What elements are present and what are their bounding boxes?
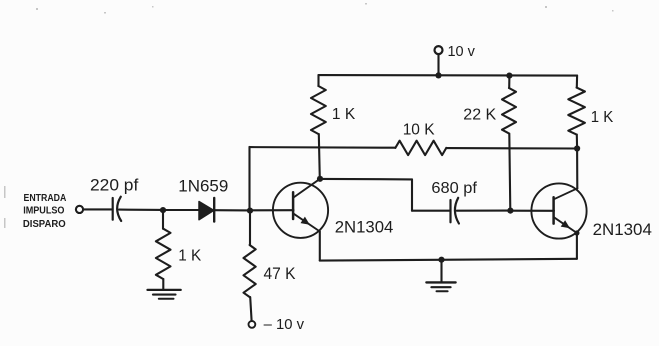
node 22K rail junction xyxy=(506,73,512,79)
svg-text:DISPARO: DISPARO xyxy=(23,218,66,230)
node A junction xyxy=(160,207,166,213)
label ENTRADA IMPULSO DISPARO xyxy=(23,192,67,230)
svg-text:10 K: 10 K xyxy=(403,121,435,138)
terminal 10 v xyxy=(435,46,443,54)
label 2N1304 (Q2) xyxy=(593,220,652,239)
wire node B up to 10K line xyxy=(248,147,250,211)
svg-text:220 pf: 220 pf xyxy=(90,175,139,194)
resistor R1 1 K (input shunt) xyxy=(156,210,171,290)
svg-text:1N659: 1N659 xyxy=(178,177,228,196)
label 2N1304 (Q1) xyxy=(335,217,394,236)
label 220 pf xyxy=(90,175,139,194)
wire node C to C2 (top segment) xyxy=(320,178,412,181)
label -10 v xyxy=(264,316,305,333)
terminal -10 v xyxy=(249,321,256,328)
ground (emitter rail) xyxy=(426,260,455,292)
capacitor C2 680 pf xyxy=(451,198,459,224)
node B junction xyxy=(247,208,253,214)
wire D1 to node B xyxy=(214,209,250,211)
transistor Q1 2N1304 xyxy=(273,179,328,238)
wire node B to Q1 base xyxy=(250,209,294,211)
wire C1 to node A xyxy=(119,209,163,211)
svg-text:1 K: 1 K xyxy=(591,109,614,126)
svg-text:1 K: 1 K xyxy=(178,247,201,264)
label 47 K xyxy=(264,264,297,283)
label 1N659 xyxy=(178,177,228,196)
svg-text:22 K: 22 K xyxy=(463,106,496,123)
resistor R6 1 K (Q2 collector load) xyxy=(568,76,585,149)
resistor R3 47 K xyxy=(244,211,256,321)
ground (input) xyxy=(148,290,181,299)
node D junction (Q2 collector / 10K / R6) xyxy=(574,145,580,151)
label 10 K xyxy=(403,121,435,138)
wire to C2 left plate xyxy=(412,210,450,212)
capacitor C1 220 pf xyxy=(113,197,122,221)
svg-text:IMPULSO: IMPULSO xyxy=(23,204,64,216)
label 22 K xyxy=(463,106,496,123)
label 1 K (R6) xyxy=(591,109,614,126)
svg-text:1 K: 1 K xyxy=(332,106,356,123)
wire emitter ground rail xyxy=(320,259,577,261)
svg-text:2N1304: 2N1304 xyxy=(593,220,652,239)
wire input terminal to C1 xyxy=(83,208,112,210)
label 680 pf xyxy=(431,180,477,197)
transistor Q2 2N1304 xyxy=(531,183,586,238)
svg-text:– 10 v: – 10 v xyxy=(264,316,305,333)
wire +10v top rail xyxy=(319,74,578,77)
label 10 v xyxy=(448,44,476,60)
wire Q1 emitter down xyxy=(319,231,321,260)
wire C2 to node E xyxy=(457,210,511,212)
input terminal (ENTRADA IMPULSO DISPARO) xyxy=(76,206,83,213)
svg-text:ENTRADA: ENTRADA xyxy=(24,192,67,204)
wire C2 drop xyxy=(411,179,413,210)
wire node A to diode D1 xyxy=(163,209,200,211)
label 1 K (R1) xyxy=(178,247,201,264)
wire 10K line right segment to node D xyxy=(446,147,577,149)
svg-text:47 K: 47 K xyxy=(264,264,297,283)
resistor R5 22 K xyxy=(502,76,516,211)
label 1 K (R2) xyxy=(332,106,356,123)
node 10v rail junction xyxy=(435,72,441,78)
wire Q2 emitter down xyxy=(576,233,578,259)
svg-text:2N1304: 2N1304 xyxy=(335,217,394,236)
node E junction (Q2 base) xyxy=(507,208,513,214)
diode D1 1N659 xyxy=(199,198,214,222)
node Q2 emitter corner xyxy=(574,230,579,235)
svg-text:10 v: 10 v xyxy=(448,44,476,60)
svg-text:680 pf: 680 pf xyxy=(431,180,477,197)
node C junction (Q1 collector) xyxy=(317,176,323,182)
node ground rail junction xyxy=(438,257,444,263)
wire node E to Q2 base xyxy=(510,210,554,212)
resistor R2 1 K (Q1 collector load) xyxy=(311,75,326,179)
wire 10v stem xyxy=(437,54,439,75)
wire Q2 collector up to node D xyxy=(576,149,578,189)
wire 10K line left segment xyxy=(250,146,396,149)
resistor R4 10 K xyxy=(395,141,446,155)
